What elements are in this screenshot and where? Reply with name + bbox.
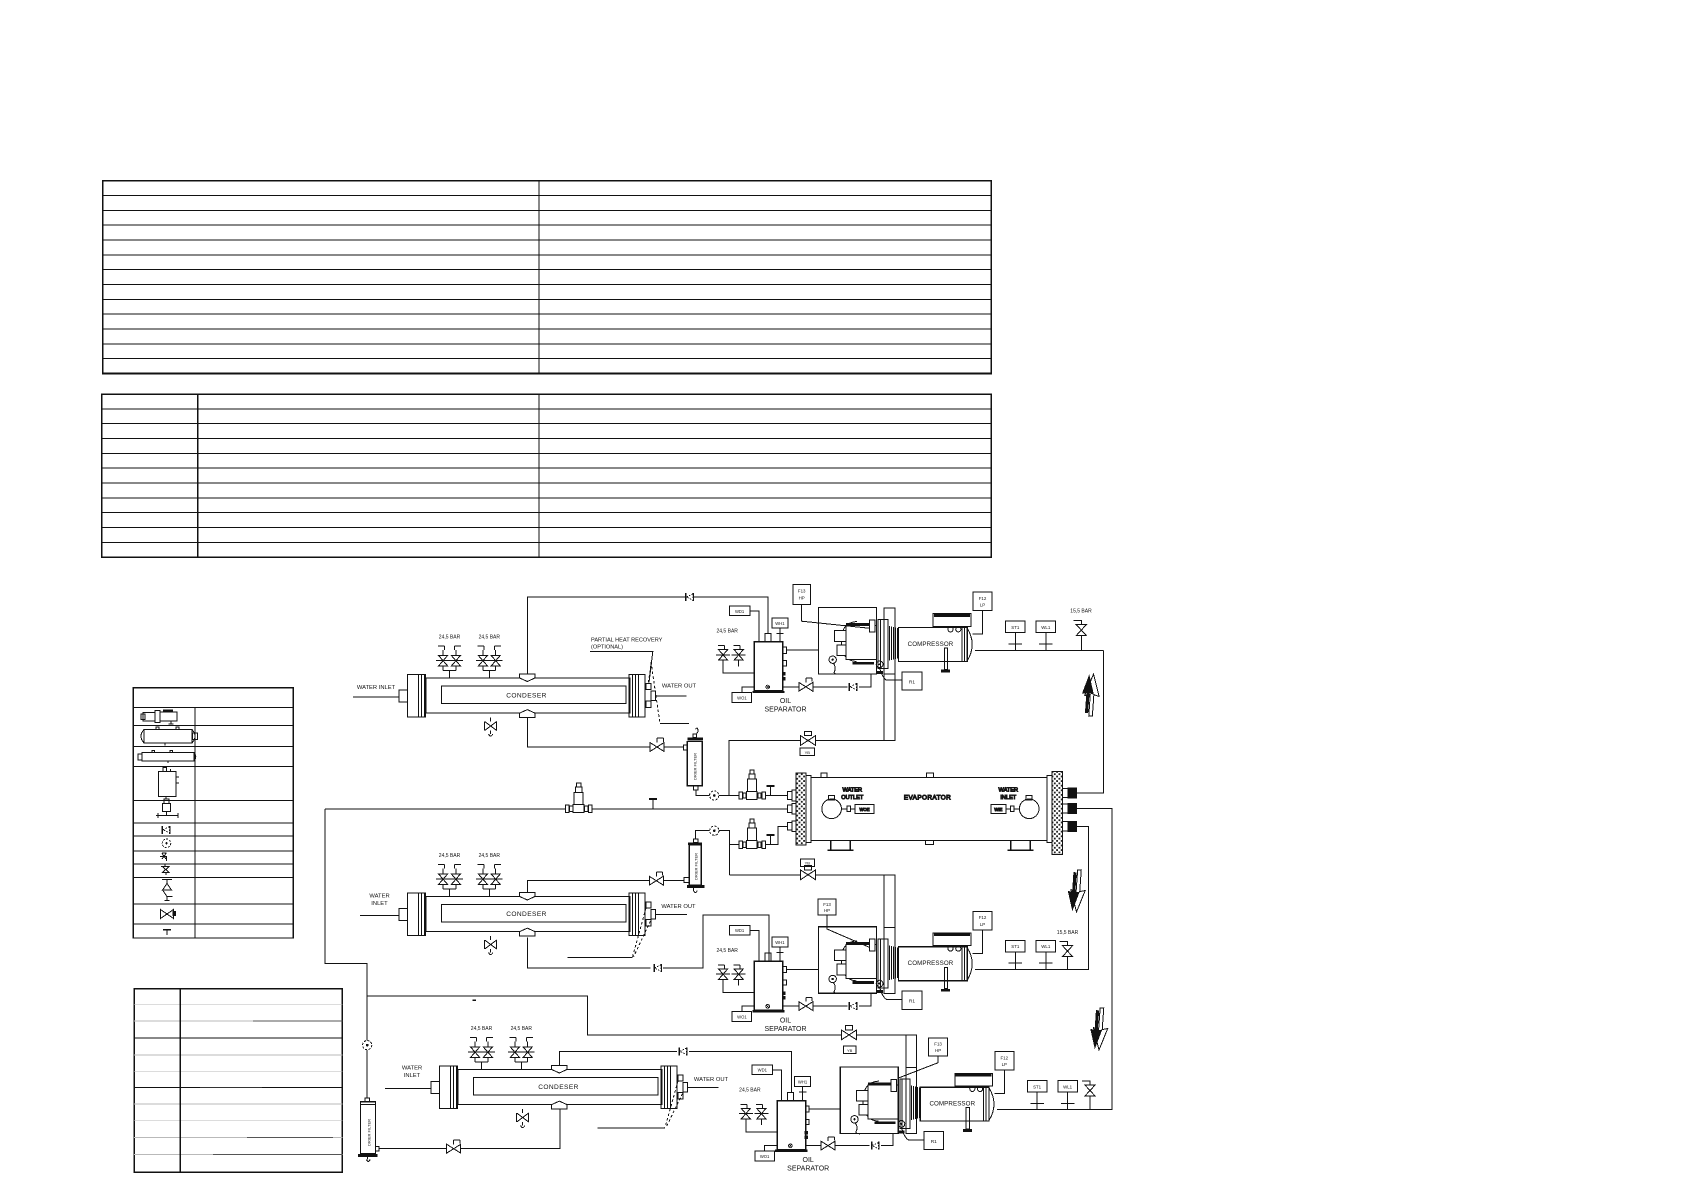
parts list table (bottom left) (134, 989, 342, 1172)
compressor 2 (819, 911, 1056, 1009)
condenser 3 (431, 1026, 688, 1128)
legend icon schrader valve (160, 853, 167, 861)
compressor 2 discharge into separator (786, 968, 818, 970)
evaporator left tube sheet (806, 776, 811, 843)
check valve on discharge line 1 (686, 593, 693, 601)
liquid riser 3 with sight glass (325, 809, 367, 1098)
shut-off valve on liquid line 2 (649, 872, 663, 885)
WOE sensor stub (841, 808, 846, 810)
oil return line 1 (783, 674, 871, 687)
svg-text:WATER OUT: WATER OUT (661, 904, 696, 910)
heat recovery fan-out lines circuit 2 (633, 908, 651, 957)
flow arrow down (circuit 3 suction) (1089, 1007, 1109, 1050)
legend symbol table (133, 688, 293, 938)
legend icon ball valve (161, 910, 177, 919)
liquid line 2: sight glass to junction (719, 831, 730, 875)
discharge line 3: separator top to condenser top (560, 1051, 792, 1092)
discharge line 2: separator top to condenser bottom (528, 915, 770, 968)
drier filter 3 (358, 1098, 379, 1162)
svg-text:YB: YB (847, 1048, 853, 1053)
tee fitting 1 (767, 786, 775, 796)
suction line circuit 2 (evaporator bottom nozzle) (975, 826, 1088, 969)
YB label box circuit 3 (844, 1046, 857, 1054)
svg-text:INLET: INLET (1000, 795, 1016, 801)
oil separator 2 (716, 926, 806, 1033)
sight glass 3 (363, 1041, 372, 1050)
evaporator shell (811, 778, 1047, 841)
data table 2 (11 rows x 3 columns) (102, 394, 992, 557)
svg-text:DRIER FILTER: DRIER FILTER (367, 1119, 372, 1146)
svg-text:F13: F13 (934, 1042, 942, 1047)
liquid line 1: sight glass to expansion valve (719, 795, 739, 797)
legend icon condenser vessel (141, 727, 198, 746)
svg-text:WOE: WOE (859, 807, 869, 812)
check valve on discharge line 2 (654, 964, 661, 972)
water inlet stub 3 (385, 1088, 431, 1090)
svg-text:WATER OUT: WATER OUT (694, 1077, 729, 1083)
svg-text:F13: F13 (823, 902, 831, 907)
svg-text:WIE: WIE (994, 807, 1002, 812)
legend icon evaporator tube (138, 751, 196, 764)
expansion valve 3 (565, 783, 592, 813)
compressor 3 (840, 1052, 1077, 1150)
instrument box F13 HP circuit 1 (793, 585, 811, 605)
legend icon capped valve (161, 864, 169, 875)
svg-text:INLET: INLET (404, 1073, 421, 1079)
solenoid valve YB circuit 2 (801, 866, 816, 880)
svg-text:INLET: INLET (371, 901, 388, 907)
svg-text:YB: YB (805, 750, 811, 755)
drier filter 2 (684, 839, 705, 893)
liquid line 1: condenser bottom to drier (528, 717, 684, 747)
oil valve 2 (799, 997, 813, 1010)
instrument box WOE (855, 805, 874, 814)
water inlet stub 2 (360, 915, 399, 917)
evaporator saddles (828, 841, 854, 851)
water out stub 3 (688, 1087, 719, 1089)
compressor 1 (819, 592, 1056, 690)
evaporator assembly (787, 772, 1076, 855)
svg-text:WATER: WATER (843, 787, 863, 793)
suction line circuit 3 (evaporator middle nozzle, long riser down) (997, 809, 1112, 1110)
svg-text:F13: F13 (798, 589, 806, 594)
oil valve 3 (821, 1137, 835, 1150)
suction riser circuit 1 (evaporator top nozzle to compressor 1) (975, 650, 1103, 793)
shut-off valve on liquid line 3 (447, 1140, 461, 1153)
oil check valve 3 (872, 1142, 879, 1150)
sight glass 1 (710, 791, 719, 800)
svg-text:WATER: WATER (402, 1066, 422, 1072)
compressor 3 discharge into separator (809, 1108, 840, 1110)
oil return line 3 (806, 1134, 894, 1146)
liquid line 3 to evaporator middle nozzle (325, 808, 787, 810)
evaporator left nozzles (787, 790, 796, 831)
svg-text:YB: YB (805, 860, 811, 865)
legend icon gauge valve assembly (162, 880, 173, 901)
compressor 1 discharge into separator (786, 649, 818, 651)
svg-text:15,5 BAR: 15,5 BAR (1057, 930, 1079, 936)
liquid line 1 into evaporator (765, 795, 787, 797)
svg-text:(OPTIONAL): (OPTIONAL) (591, 645, 623, 651)
drier filter 1 (684, 728, 704, 790)
YB label box circuit 1 (800, 748, 815, 756)
svg-text:WATER: WATER (369, 894, 389, 900)
legend icon sight glass (162, 839, 171, 848)
svg-text:WATER OUT: WATER OUT (662, 684, 697, 690)
legend icon compressor (141, 710, 177, 725)
oil check valve 2 (849, 1002, 856, 1010)
oil return line 2 (783, 993, 871, 1006)
legend icon check valve (162, 826, 169, 834)
solenoid valve YB circuit 3 (842, 1026, 857, 1040)
sight glass 2 (710, 826, 719, 835)
svg-text:OUTLET: OUTLET (841, 795, 864, 801)
heat recovery fan-out lines circuit 3 (665, 1081, 683, 1128)
check valve on discharge line 3 (679, 1047, 686, 1055)
svg-text:WATER: WATER (999, 787, 1019, 793)
liquid line 1: drier to sight glass (696, 790, 710, 796)
heat recovery fan-out lines (648, 651, 660, 723)
legend icon expansion valve (156, 799, 178, 818)
data table 1 (top, 13 rows x 2 columns) (103, 181, 992, 374)
flow arrow up (circuit 1 suction) (1080, 673, 1100, 716)
oil separator 1 (716, 606, 806, 713)
instrument box F13 HP circuit 3 (929, 1038, 948, 1056)
economizer line 2 with solenoid (730, 875, 895, 927)
svg-text:HP: HP (935, 1048, 941, 1053)
instrument box F13 HP circuit 2 (818, 899, 836, 915)
svg-text:15,5 BAR: 15,5 BAR (1070, 609, 1092, 615)
legend icon tee (163, 930, 171, 935)
water inlet flange circle (1019, 799, 1039, 819)
legend icon oil separator (159, 768, 180, 800)
discharge line 1: separator to condenser top (528, 597, 769, 674)
evaporator right nozzles (1063, 788, 1077, 831)
discharge gauge valve circuit 3 (1082, 1081, 1090, 1085)
water outlet flange circle (822, 799, 842, 819)
liquid line 3: condenser bottom to drier 3 (379, 1109, 560, 1149)
branch to expansion valve 2 (730, 844, 739, 846)
expansion valve 1 (739, 770, 766, 800)
water out stub 2 (656, 914, 687, 916)
svg-text:EVAPORATOR: EVAPORATOR (904, 795, 951, 802)
YB label box circuit 2 (800, 859, 814, 867)
svg-text:PARTIAL HEAT RECOVERY: PARTIAL HEAT RECOVERY (591, 638, 663, 644)
svg-text:WATER INLET: WATER INLET (357, 685, 396, 691)
liquid line 2 into evaporator bottom nozzle (765, 826, 787, 844)
WIE sensor stub (1014, 808, 1019, 810)
stray tick mark (473, 999, 476, 1001)
instrument box WIE (991, 805, 1006, 814)
oil valve 1 (799, 678, 813, 691)
economizer line 1 with solenoid (729, 674, 895, 796)
svg-text:HP: HP (824, 908, 830, 913)
tee fitting 2 (767, 835, 775, 845)
svg-text:HP: HP (799, 596, 805, 601)
evaporator right tube sheet (1047, 776, 1052, 843)
expansion valve 2 (739, 819, 766, 849)
economizer line 3 with solenoid (367, 996, 916, 1067)
liquid line 2: drier top to sight glass (696, 831, 710, 839)
water inlet stub 1 (353, 696, 399, 698)
water out stub 1 (656, 695, 687, 697)
oil separator 3 (739, 1065, 829, 1172)
condenser 1 (399, 635, 656, 737)
oil check valve 1 (849, 683, 856, 691)
solenoid valve YB circuit 1 (801, 731, 816, 745)
flow arrow down (circuit 2 suction) (1066, 869, 1086, 912)
shut-off valve on liquid line 1 (650, 738, 664, 751)
condenser 2 (399, 853, 656, 955)
evaporator top fittings (821, 773, 827, 778)
liquid line 2: condenser top to drier 2 (528, 881, 685, 894)
tee fitting 3 (649, 799, 657, 809)
